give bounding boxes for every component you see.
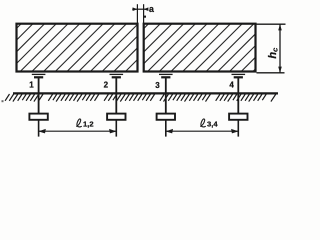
dimension hc: vertical dimension line [279, 24, 281, 73]
svg-text:3,4: 3,4 [207, 120, 218, 129]
label l1,2 [77, 119, 94, 129]
footing of support 3 [157, 114, 175, 137]
dimension l3,4: left arrowhead [166, 129, 173, 134]
svg-text:1,2: 1,2 [83, 120, 94, 129]
footing of support 4 [229, 114, 247, 137]
dimension hc: bottom extension line [257, 72, 285, 74]
dimension a: right arrowhead [144, 7, 149, 11]
label l3,4 [201, 119, 219, 129]
stray scan speck [2, 100, 4, 102]
dimension a: left arrowhead [133, 7, 138, 11]
dimension a: extension lines [137, 4, 143, 23]
svg-text:4: 4 [229, 81, 234, 90]
support 1 (bearing plate, pad and column stem) [32, 74, 46, 113]
dimension l3,4: dimension line [166, 130, 239, 132]
support 2 (bearing plate, pad and column stem) [110, 74, 124, 113]
dimension hc: top arrowhead [278, 24, 282, 30]
small mark below dimension a [144, 16, 146, 18]
svg-text:1: 1 [29, 81, 34, 90]
svg-text:3: 3 [155, 81, 160, 90]
dimension l1,2: dimension line [39, 130, 117, 132]
footing of support 2 [107, 114, 125, 137]
dimension l3,4: right arrowhead [231, 129, 238, 134]
ground line [13, 92, 278, 94]
svg-text:2: 2 [104, 81, 109, 90]
dimension hc: bottom arrowhead [278, 67, 282, 73]
dimension hc: top extension line [257, 23, 286, 25]
dimension l1,2: left arrowhead [38, 129, 45, 134]
dimension a: dimension line [132, 8, 147, 10]
svg-text:a: a [149, 4, 154, 14]
slab right (hatched panel) [144, 24, 256, 72]
ground hatching [5, 94, 276, 102]
footing of support 1 [29, 114, 47, 137]
dimension l1,2: right arrowhead [109, 129, 116, 134]
slab left (hatched panel) [17, 24, 138, 72]
support 3 (bearing plate, pad and column stem) [159, 74, 173, 113]
support 4 (bearing plate, pad and column stem) [232, 74, 246, 113]
